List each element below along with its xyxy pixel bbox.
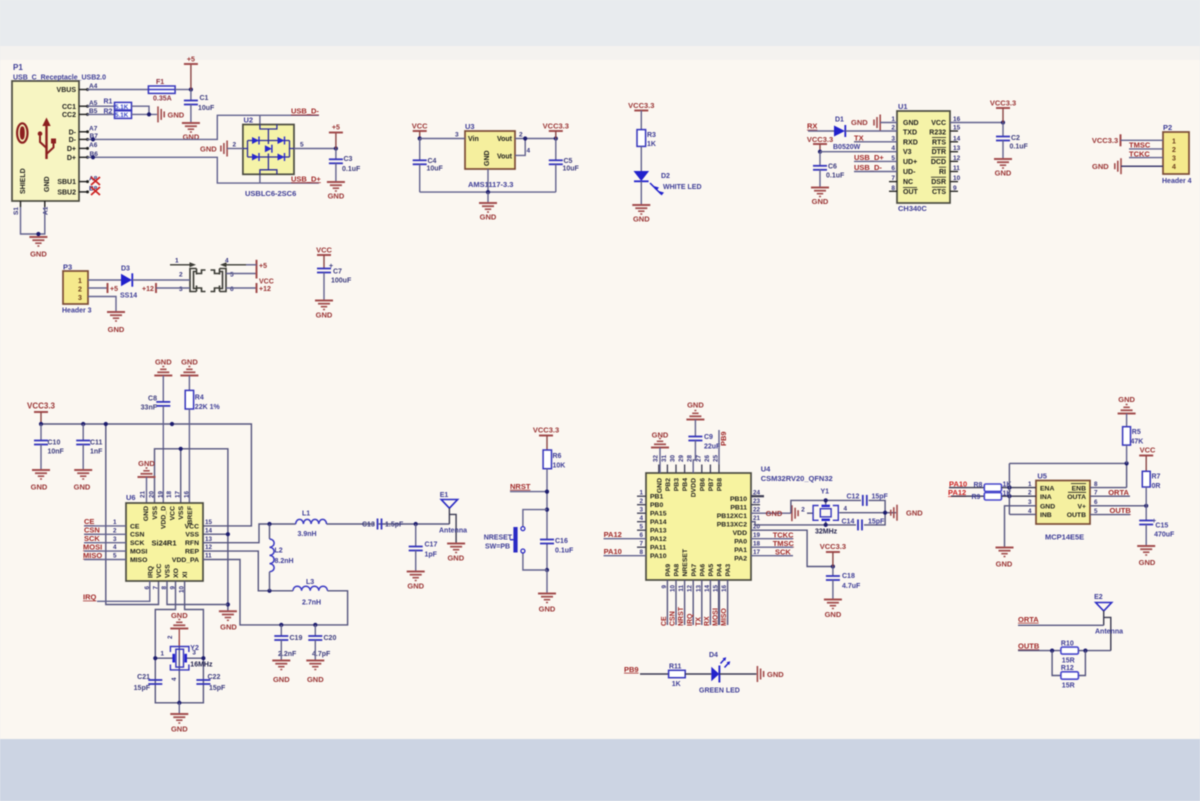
svg-text:NRST: NRST bbox=[510, 482, 531, 491]
svg-text:C16: C16 bbox=[555, 538, 568, 545]
svg-text:GND: GND bbox=[812, 197, 829, 206]
svg-text:CTS: CTS bbox=[932, 189, 946, 196]
svg-text:2: 2 bbox=[167, 635, 174, 639]
svg-text:NC: NC bbox=[903, 179, 913, 186]
svg-text:5.1K: 5.1K bbox=[115, 104, 129, 111]
svg-text:VCC: VCC bbox=[316, 246, 332, 255]
svg-text:33nF: 33nF bbox=[141, 405, 158, 412]
svg-text:Antenna: Antenna bbox=[1095, 629, 1123, 636]
svg-text:10uF: 10uF bbox=[198, 105, 215, 112]
svg-text:GND: GND bbox=[316, 311, 333, 320]
svg-text:WHITE LED: WHITE LED bbox=[663, 184, 702, 191]
svg-text:NRST: NRST bbox=[678, 606, 685, 626]
svg-text:C7: C7 bbox=[333, 269, 342, 276]
svg-text:Si24R1: Si24R1 bbox=[152, 539, 177, 548]
svg-text:MOSI: MOSI bbox=[130, 548, 147, 555]
svg-text:INB: INB bbox=[1040, 512, 1052, 519]
svg-text:9: 9 bbox=[661, 585, 668, 589]
svg-text:11: 11 bbox=[678, 585, 685, 592]
svg-text:27: 27 bbox=[695, 454, 702, 462]
svg-text:BREF: BREF bbox=[187, 506, 194, 525]
svg-text:S1: S1 bbox=[13, 207, 20, 215]
svg-text:F1: F1 bbox=[156, 79, 164, 86]
svg-text:USB_D-: USB_D- bbox=[854, 163, 882, 172]
svg-text:1: 1 bbox=[113, 519, 117, 526]
svg-text:USBLC6-2SC6: USBLC6-2SC6 bbox=[245, 189, 296, 198]
svg-text:Vout: Vout bbox=[497, 154, 513, 161]
svg-text:1K: 1K bbox=[647, 141, 656, 148]
svg-text:C17: C17 bbox=[425, 542, 438, 549]
svg-text:GND: GND bbox=[825, 610, 842, 619]
svg-text:OUTB: OUTB bbox=[1110, 506, 1132, 515]
svg-text:MISO: MISO bbox=[83, 551, 102, 560]
svg-text:12: 12 bbox=[205, 544, 213, 551]
svg-text:GND: GND bbox=[1092, 162, 1109, 171]
svg-text:VCC3.3: VCC3.3 bbox=[628, 101, 654, 110]
svg-text:3: 3 bbox=[113, 536, 117, 543]
svg-text:GND: GND bbox=[995, 169, 1012, 178]
svg-text:U1: U1 bbox=[898, 102, 908, 111]
svg-text:21: 21 bbox=[753, 515, 761, 522]
svg-text:GND: GND bbox=[903, 120, 919, 127]
svg-text:3: 3 bbox=[455, 132, 459, 139]
svg-text:GND: GND bbox=[447, 554, 464, 563]
svg-text:OUTB: OUTB bbox=[1067, 512, 1086, 519]
svg-text:0.35A: 0.35A bbox=[153, 96, 172, 103]
svg-text:C5: C5 bbox=[564, 158, 573, 165]
svg-text:VCC3.3: VCC3.3 bbox=[807, 135, 833, 144]
svg-text:USB_D-: USB_D- bbox=[291, 107, 319, 116]
svg-text:3: 3 bbox=[78, 295, 82, 302]
svg-text:MISO: MISO bbox=[130, 557, 147, 564]
svg-text:VBUS: VBUS bbox=[57, 87, 77, 94]
svg-text:RI: RI bbox=[939, 169, 946, 176]
svg-text:PA0: PA0 bbox=[734, 539, 747, 546]
svg-text:D+: D+ bbox=[67, 146, 76, 153]
svg-text:VCC3.3: VCC3.3 bbox=[27, 402, 56, 411]
svg-text:DCD: DCD bbox=[931, 159, 946, 166]
svg-text:R9: R9 bbox=[972, 494, 981, 501]
svg-text:PB0: PB0 bbox=[650, 502, 663, 509]
svg-text:CSN: CSN bbox=[130, 532, 144, 539]
svg-text:17: 17 bbox=[175, 490, 182, 498]
svg-text:C19: C19 bbox=[290, 635, 303, 642]
svg-text:C11: C11 bbox=[90, 440, 103, 447]
svg-text:7: 7 bbox=[891, 175, 895, 182]
svg-text:RTS: RTS bbox=[932, 139, 946, 146]
svg-text:16: 16 bbox=[721, 585, 728, 593]
svg-text:CSN: CSN bbox=[670, 611, 677, 626]
svg-text:4: 4 bbox=[1172, 164, 1176, 171]
svg-text:19: 19 bbox=[753, 532, 761, 539]
svg-text:PA12: PA12 bbox=[650, 536, 667, 543]
svg-text:1pF: 1pF bbox=[425, 552, 438, 559]
svg-text:PA2: PA2 bbox=[734, 556, 747, 563]
svg-text:R7: R7 bbox=[1152, 474, 1161, 481]
svg-text:V+: V+ bbox=[1077, 504, 1086, 511]
svg-text:PB3: PB3 bbox=[674, 478, 681, 491]
svg-text:1: 1 bbox=[1172, 138, 1176, 145]
svg-text:C2: C2 bbox=[1011, 135, 1020, 142]
svg-text:SBU2: SBU2 bbox=[57, 190, 76, 197]
svg-text:GND: GND bbox=[1139, 558, 1156, 567]
svg-text:30: 30 bbox=[670, 454, 677, 462]
svg-text:21: 21 bbox=[140, 490, 147, 498]
svg-text:GND: GND bbox=[656, 478, 663, 493]
svg-text:U4: U4 bbox=[761, 465, 771, 474]
svg-text:1: 1 bbox=[161, 651, 165, 658]
svg-text:SCK: SCK bbox=[775, 547, 791, 556]
svg-text:470uF: 470uF bbox=[1154, 532, 1175, 539]
svg-text:VCC3.3: VCC3.3 bbox=[533, 426, 559, 435]
svg-text:GND: GND bbox=[143, 506, 150, 521]
svg-text:GND: GND bbox=[183, 133, 200, 142]
svg-text:GND: GND bbox=[767, 670, 784, 679]
svg-text:GND: GND bbox=[171, 725, 188, 734]
svg-text:GND: GND bbox=[484, 150, 491, 166]
svg-text:+5: +5 bbox=[110, 286, 118, 293]
svg-text:18: 18 bbox=[753, 541, 761, 548]
svg-text:REP: REP bbox=[185, 548, 199, 555]
svg-text:D2: D2 bbox=[661, 173, 670, 180]
svg-text:C6: C6 bbox=[828, 164, 837, 171]
svg-text:14: 14 bbox=[205, 527, 213, 534]
svg-text:2: 2 bbox=[78, 286, 82, 293]
svg-text:10: 10 bbox=[953, 175, 961, 182]
svg-text:CSM32RV20_QFN32: CSM32RV20_QFN32 bbox=[761, 474, 833, 483]
svg-text:1nF: 1nF bbox=[90, 449, 103, 456]
svg-text:R12: R12 bbox=[1061, 665, 1074, 672]
svg-text:2: 2 bbox=[179, 272, 183, 279]
svg-text:GND: GND bbox=[220, 623, 237, 632]
svg-text:8.2nH: 8.2nH bbox=[275, 558, 294, 565]
svg-text:IRQ: IRQ bbox=[83, 593, 97, 602]
svg-text:3: 3 bbox=[1172, 156, 1176, 163]
svg-text:3: 3 bbox=[192, 650, 196, 657]
svg-text:C12: C12 bbox=[847, 494, 860, 501]
svg-text:VDD_PA: VDD_PA bbox=[172, 557, 199, 564]
svg-text:0R: 0R bbox=[1152, 483, 1161, 490]
svg-text:32: 32 bbox=[652, 454, 659, 462]
svg-text:V3: V3 bbox=[903, 149, 912, 156]
svg-text:23: 23 bbox=[753, 498, 761, 505]
svg-text:2: 2 bbox=[233, 142, 237, 149]
svg-text:GND: GND bbox=[328, 192, 345, 201]
svg-text:IRQ: IRQ bbox=[147, 566, 154, 578]
svg-text:CC1: CC1 bbox=[62, 104, 76, 111]
svg-text:22: 22 bbox=[753, 507, 761, 514]
svg-text:GND: GND bbox=[539, 605, 556, 614]
svg-text:A1: A1 bbox=[43, 206, 50, 215]
svg-text:TX: TX bbox=[695, 617, 702, 626]
svg-text:GND: GND bbox=[155, 358, 172, 367]
svg-text:CE: CE bbox=[130, 523, 140, 530]
svg-text:C13: C13 bbox=[362, 522, 375, 529]
svg-text:MCP14E5E: MCP14E5E bbox=[1045, 533, 1084, 542]
svg-text:L2: L2 bbox=[275, 548, 283, 555]
svg-text:C20: C20 bbox=[324, 635, 337, 642]
svg-text:GND: GND bbox=[633, 215, 650, 224]
svg-text:3: 3 bbox=[639, 507, 643, 514]
svg-text:GND: GND bbox=[74, 483, 91, 492]
svg-text:R3: R3 bbox=[647, 132, 656, 139]
svg-text:D4: D4 bbox=[709, 652, 718, 659]
svg-text:2: 2 bbox=[639, 498, 643, 505]
svg-text:GND: GND bbox=[307, 675, 324, 684]
svg-text:PA7: PA7 bbox=[691, 564, 698, 577]
svg-text:PA8: PA8 bbox=[674, 564, 681, 577]
svg-text:5.1K: 5.1K bbox=[115, 112, 129, 119]
svg-text:P3: P3 bbox=[63, 263, 72, 272]
svg-text:ENA: ENA bbox=[1040, 485, 1054, 492]
svg-text:VSS: VSS bbox=[152, 506, 159, 520]
svg-text:CE: CE bbox=[661, 616, 668, 626]
svg-text:B0520W: B0520W bbox=[833, 144, 861, 151]
svg-text:5: 5 bbox=[230, 272, 234, 279]
svg-text:XI: XI bbox=[182, 571, 189, 578]
svg-text:Y1: Y1 bbox=[821, 489, 830, 496]
svg-text:4.7uF: 4.7uF bbox=[842, 583, 861, 590]
svg-text:DSR: DSR bbox=[931, 179, 946, 186]
svg-text:PA1: PA1 bbox=[734, 547, 747, 554]
svg-text:VCC: VCC bbox=[169, 506, 176, 520]
svg-text:GREEN LED: GREEN LED bbox=[699, 688, 740, 695]
svg-text:1: 1 bbox=[639, 490, 643, 497]
svg-text:R232: R232 bbox=[929, 130, 946, 137]
svg-text:PB7: PB7 bbox=[708, 478, 715, 491]
svg-text:GND: GND bbox=[31, 483, 48, 492]
svg-text:5: 5 bbox=[113, 553, 117, 560]
svg-text:D1: D1 bbox=[835, 117, 844, 124]
svg-text:OUTA: OUTA bbox=[1067, 494, 1086, 501]
svg-text:GND: GND bbox=[1040, 504, 1055, 511]
svg-text:10uF: 10uF bbox=[427, 166, 444, 173]
svg-text:GND: GND bbox=[407, 582, 424, 591]
svg-text:24: 24 bbox=[753, 490, 761, 497]
svg-text:14: 14 bbox=[704, 585, 711, 593]
svg-text:3: 3 bbox=[179, 286, 183, 293]
svg-text:SS14: SS14 bbox=[120, 293, 137, 300]
svg-text:VCC3.3: VCC3.3 bbox=[1092, 136, 1118, 145]
svg-text:+5: +5 bbox=[187, 57, 195, 64]
svg-text:NRESET: NRESET bbox=[682, 548, 689, 576]
svg-text:R11: R11 bbox=[669, 664, 682, 671]
svg-text:D-: D- bbox=[69, 129, 77, 136]
svg-text:GND: GND bbox=[44, 176, 51, 192]
svg-text:A6: A6 bbox=[89, 142, 98, 149]
svg-text:0.1uF: 0.1uF bbox=[555, 548, 574, 555]
svg-text:18: 18 bbox=[166, 490, 173, 498]
svg-text:4: 4 bbox=[844, 506, 848, 513]
svg-text:5: 5 bbox=[639, 524, 643, 531]
svg-text:P1: P1 bbox=[13, 63, 23, 72]
svg-text:GND: GND bbox=[273, 675, 290, 684]
svg-text:USB_C_Receptacle_USB2.0: USB_C_Receptacle_USB2.0 bbox=[13, 75, 106, 82]
svg-text:GND: GND bbox=[996, 560, 1013, 569]
svg-text:15pF: 15pF bbox=[868, 519, 885, 526]
svg-text:L1: L1 bbox=[302, 511, 310, 518]
svg-text:PA4: PA4 bbox=[717, 564, 724, 577]
svg-text:15pF: 15pF bbox=[872, 494, 889, 501]
svg-text:2: 2 bbox=[519, 132, 523, 139]
svg-text:1K: 1K bbox=[672, 681, 681, 688]
svg-text:R10: R10 bbox=[1061, 641, 1074, 648]
svg-text:C4: C4 bbox=[428, 158, 437, 165]
svg-text:VSS: VSS bbox=[185, 532, 199, 539]
svg-text:15R: 15R bbox=[1062, 683, 1075, 690]
svg-text:C21: C21 bbox=[137, 674, 150, 681]
svg-text:SBU1: SBU1 bbox=[57, 179, 76, 186]
svg-text:32MHz: 32MHz bbox=[815, 529, 838, 536]
svg-text:13: 13 bbox=[205, 536, 213, 543]
svg-text:PB6: PB6 bbox=[699, 478, 706, 491]
svg-text:2.7nH: 2.7nH bbox=[302, 600, 321, 607]
svg-text:OUTB: OUTB bbox=[1018, 641, 1040, 650]
svg-text:XO: XO bbox=[173, 568, 180, 578]
svg-text:PA15: PA15 bbox=[650, 511, 667, 518]
svg-text:4: 4 bbox=[113, 544, 117, 551]
svg-text:VCC3.3: VCC3.3 bbox=[820, 542, 846, 551]
svg-text:6: 6 bbox=[230, 286, 234, 293]
svg-text:VCC3.3: VCC3.3 bbox=[543, 122, 569, 131]
svg-text:+5: +5 bbox=[332, 125, 340, 132]
svg-text:E2: E2 bbox=[1094, 594, 1103, 601]
svg-text:A7: A7 bbox=[89, 126, 98, 133]
svg-text:10K: 10K bbox=[553, 463, 566, 470]
svg-text:PB10: PB10 bbox=[730, 496, 747, 503]
svg-text:ENB: ENB bbox=[1072, 485, 1086, 492]
svg-text:1: 1 bbox=[78, 278, 82, 285]
svg-text:L3: L3 bbox=[306, 579, 314, 586]
svg-text:GND: GND bbox=[1118, 395, 1135, 404]
svg-text:C15: C15 bbox=[1155, 523, 1168, 530]
svg-text:GND: GND bbox=[766, 509, 783, 518]
svg-text:P2: P2 bbox=[1163, 123, 1172, 132]
svg-text:PA5: PA5 bbox=[708, 564, 715, 577]
svg-text:15: 15 bbox=[713, 585, 720, 593]
svg-text:8: 8 bbox=[639, 549, 643, 556]
svg-text:VCC: VCC bbox=[259, 279, 274, 286]
svg-text:VCC: VCC bbox=[412, 122, 428, 131]
svg-text:GND: GND bbox=[30, 250, 47, 259]
svg-text:SHIELD: SHIELD bbox=[20, 168, 27, 194]
svg-text:C3: C3 bbox=[344, 156, 353, 163]
svg-text:UD-: UD- bbox=[903, 169, 916, 176]
svg-text:PA3: PA3 bbox=[725, 564, 732, 577]
svg-text:VDD_D: VDD_D bbox=[161, 506, 168, 529]
svg-text:PB2: PB2 bbox=[665, 478, 672, 491]
svg-text:2: 2 bbox=[801, 506, 805, 513]
svg-text:7: 7 bbox=[639, 541, 643, 548]
svg-text:U3: U3 bbox=[465, 122, 475, 131]
svg-text:PA10: PA10 bbox=[650, 553, 667, 560]
svg-text:GND: GND bbox=[108, 325, 125, 334]
svg-text:U6: U6 bbox=[126, 493, 136, 502]
svg-text:7: 7 bbox=[153, 586, 160, 590]
svg-text:INA: INA bbox=[1040, 494, 1052, 501]
svg-text:11: 11 bbox=[205, 553, 212, 560]
svg-text:PB12XC1: PB12XC1 bbox=[717, 513, 747, 520]
svg-text:19: 19 bbox=[157, 490, 164, 498]
svg-text:E1: E1 bbox=[440, 492, 449, 499]
svg-text:UD+: UD+ bbox=[903, 159, 917, 166]
svg-text:10nF: 10nF bbox=[48, 449, 65, 456]
svg-text:1.5pF: 1.5pF bbox=[385, 522, 404, 529]
svg-text:15pF: 15pF bbox=[134, 685, 151, 692]
svg-text:GND: GND bbox=[200, 145, 217, 154]
svg-text:Vin: Vin bbox=[468, 136, 479, 143]
svg-text:CH340C: CH340C bbox=[898, 204, 927, 213]
svg-text:SW=PB: SW=PB bbox=[485, 544, 510, 551]
svg-text:DVDD: DVDD bbox=[691, 478, 698, 497]
svg-text:Vout: Vout bbox=[497, 136, 513, 143]
svg-text:DTR: DTR bbox=[932, 149, 946, 156]
svg-text:22K 1%: 22K 1% bbox=[195, 404, 221, 411]
svg-text:C18: C18 bbox=[842, 573, 855, 580]
svg-text:PB9: PB9 bbox=[719, 431, 728, 446]
svg-text:0.1uF: 0.1uF bbox=[1010, 144, 1029, 151]
svg-text:0.1uF: 0.1uF bbox=[342, 166, 361, 173]
svg-text:D3: D3 bbox=[121, 266, 130, 273]
svg-text:PA10: PA10 bbox=[604, 547, 622, 556]
svg-text:GND: GND bbox=[480, 213, 497, 222]
svg-text:47K: 47K bbox=[1131, 439, 1144, 446]
svg-text:R2: R2 bbox=[104, 109, 113, 116]
svg-text:PA14: PA14 bbox=[650, 519, 667, 526]
svg-text:IRQ: IRQ bbox=[687, 613, 694, 626]
svg-text:C8: C8 bbox=[148, 396, 157, 403]
svg-text:13: 13 bbox=[695, 585, 702, 593]
svg-text:10uF: 10uF bbox=[563, 166, 580, 173]
svg-text:MISO: MISO bbox=[721, 608, 728, 626]
svg-text:VSS: VSS bbox=[178, 506, 185, 520]
svg-text:2: 2 bbox=[113, 527, 117, 534]
svg-text:GND: GND bbox=[171, 611, 188, 620]
svg-text:U2: U2 bbox=[244, 116, 254, 125]
svg-text:+12: +12 bbox=[142, 286, 154, 293]
svg-text:C22: C22 bbox=[208, 674, 221, 681]
svg-text:PB8: PB8 bbox=[717, 478, 724, 491]
svg-text:PB11: PB11 bbox=[730, 505, 747, 512]
svg-text:RX: RX bbox=[807, 122, 817, 131]
svg-text:5: 5 bbox=[300, 142, 304, 149]
svg-text:R4: R4 bbox=[195, 395, 204, 402]
svg-text:PB9: PB9 bbox=[624, 665, 639, 674]
svg-text:TX: TX bbox=[854, 133, 864, 142]
svg-text:VCC: VCC bbox=[931, 120, 946, 127]
svg-text:VCC: VCC bbox=[156, 564, 163, 578]
svg-text:PA13: PA13 bbox=[650, 528, 667, 535]
svg-text:PB13XC2: PB13XC2 bbox=[717, 522, 747, 529]
svg-text:Header 4: Header 4 bbox=[1162, 178, 1192, 185]
svg-text:100uF: 100uF bbox=[331, 278, 352, 285]
svg-text:10: 10 bbox=[670, 585, 677, 593]
svg-text:20: 20 bbox=[149, 490, 156, 498]
svg-text:R8: R8 bbox=[974, 482, 983, 489]
svg-text:USB_D+: USB_D+ bbox=[291, 174, 321, 183]
svg-text:2: 2 bbox=[1172, 147, 1176, 154]
svg-text:PB4: PB4 bbox=[682, 478, 689, 491]
svg-text:16: 16 bbox=[183, 490, 190, 498]
svg-text:PB1: PB1 bbox=[650, 494, 663, 501]
svg-text:GND: GND bbox=[906, 509, 923, 518]
svg-text:MOSI: MOSI bbox=[713, 608, 720, 626]
svg-text:29: 29 bbox=[678, 454, 685, 462]
svg-text:VSS: VSS bbox=[165, 564, 172, 578]
svg-text:GND: GND bbox=[687, 401, 704, 410]
svg-text:GND: GND bbox=[181, 358, 198, 367]
svg-text:C10: C10 bbox=[48, 440, 61, 447]
